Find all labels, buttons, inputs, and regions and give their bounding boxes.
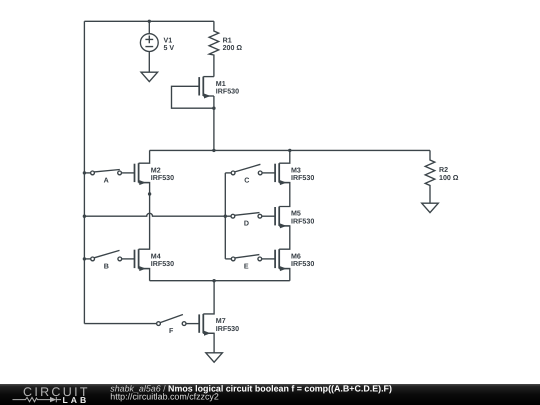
svg-text:M2: M2 xyxy=(151,166,161,174)
svg-text:R2: R2 xyxy=(439,166,448,174)
svg-text:IRF530: IRF530 xyxy=(216,325,239,333)
wire M4 source to bottom bus xyxy=(139,269,150,281)
wire M1 source to drain bus xyxy=(213,108,215,150)
svg-text:A: A xyxy=(104,176,109,184)
wire M5 source to M6 drain xyxy=(279,226,290,249)
node M2-M4 junction xyxy=(148,192,151,195)
wire switch F left xyxy=(84,323,156,325)
wire V1 bottom xyxy=(148,52,150,73)
wire M1 source stub xyxy=(213,96,215,108)
svg-text:IRF530: IRF530 xyxy=(151,260,174,268)
wire switch bus with hop xyxy=(84,213,231,216)
svg-text:M7: M7 xyxy=(216,317,226,325)
wire top rail V+ xyxy=(84,20,214,22)
wire M2 drain riser xyxy=(139,150,150,163)
wire M7 source to ground xyxy=(203,333,214,352)
wire M3 drain riser xyxy=(279,150,290,163)
switch F xyxy=(157,315,186,326)
ground under M7 xyxy=(206,353,223,362)
wire M7 drain riser xyxy=(203,281,214,314)
transistor M5 xyxy=(275,207,290,229)
svg-text:IRF530: IRF530 xyxy=(291,174,314,182)
logo LAB text xyxy=(63,395,90,405)
svg-text:C: C xyxy=(244,176,249,184)
transistor M2 xyxy=(135,163,150,185)
svg-text:M5: M5 xyxy=(291,210,301,218)
wire M1 gate loop to source node xyxy=(172,86,214,108)
wire left rail xyxy=(83,21,85,323)
wire M6 source to bottom bus xyxy=(279,269,290,281)
transistor M7 xyxy=(199,314,214,336)
wire M2 source to M4 drain xyxy=(139,183,150,250)
wire switch B to M4 gate xyxy=(122,258,135,260)
node V1 top junction xyxy=(148,20,151,23)
resistor R2 xyxy=(425,150,435,203)
node M1 source junction xyxy=(212,107,215,110)
svg-text:M6: M6 xyxy=(291,252,301,260)
ground under R2 xyxy=(422,203,439,212)
switch D xyxy=(231,213,262,219)
switch E xyxy=(231,255,261,261)
wire switch A left xyxy=(84,172,90,174)
svg-text:B: B xyxy=(104,262,109,270)
ground under V1 xyxy=(141,72,158,81)
transistor M3 xyxy=(275,163,290,185)
voltage source V1 xyxy=(140,34,158,52)
svg-text:http://circuitlab.com/cfzzcy2: http://circuitlab.com/cfzzcy2 xyxy=(110,392,219,402)
wire M3 source to M5 drain xyxy=(279,183,290,207)
node rail-B junction xyxy=(83,257,86,260)
svg-text:M3: M3 xyxy=(291,166,301,174)
node M7 drain junction xyxy=(212,279,215,282)
wire switch F to M7 gate xyxy=(186,323,199,325)
node rail-A junction xyxy=(83,171,86,174)
node M3 drain junction xyxy=(288,149,291,152)
svg-text:R1: R1 xyxy=(223,36,232,44)
wire switch B left xyxy=(84,258,90,260)
wire V1 top stub xyxy=(148,21,150,33)
resistor R1 xyxy=(209,21,219,76)
switch B xyxy=(91,250,122,260)
logo schematic glyph xyxy=(13,397,62,402)
svg-text:M4: M4 xyxy=(151,252,161,260)
wire switch D to M5 gate xyxy=(262,215,275,217)
wire switch E to M6 gate xyxy=(262,258,275,260)
wire E row stub xyxy=(225,258,231,260)
svg-text:IRF530: IRF530 xyxy=(291,218,314,226)
wire C row stub xyxy=(225,172,231,174)
footer bar xyxy=(0,384,540,405)
wire bottom bus xyxy=(150,280,290,282)
switch A xyxy=(91,170,122,175)
svg-text:D: D xyxy=(244,220,249,228)
svg-text:100 Ω: 100 Ω xyxy=(439,174,459,182)
wire switch C to M3 gate xyxy=(262,172,275,174)
wire CDE rail xyxy=(224,173,226,259)
footer url line xyxy=(110,392,219,402)
node rail-bus junction xyxy=(83,215,86,218)
svg-text:LAB: LAB xyxy=(63,395,90,405)
wire switch A to M2 gate xyxy=(122,172,135,174)
svg-text:F: F xyxy=(169,327,174,335)
transistor M6 xyxy=(275,249,290,271)
svg-text:IRF530: IRF530 xyxy=(151,174,174,182)
svg-text:5 V: 5 V xyxy=(164,44,175,52)
svg-text:IRF530: IRF530 xyxy=(291,260,314,268)
svg-text:E: E xyxy=(244,262,249,270)
svg-text:IRF530: IRF530 xyxy=(216,88,239,96)
svg-text:M1: M1 xyxy=(216,80,226,88)
wire drain bus xyxy=(150,149,430,151)
transistor M4 xyxy=(135,249,150,271)
svg-text:V1: V1 xyxy=(164,36,173,44)
transistor M1 xyxy=(199,67,214,99)
footer title line xyxy=(110,383,392,393)
logo CIRCUIT text xyxy=(23,385,90,399)
node M1 to bus junction xyxy=(212,149,215,152)
switch C xyxy=(231,164,262,175)
node CDE rail junction xyxy=(224,215,227,218)
svg-text:200 Ω: 200 Ω xyxy=(223,44,243,52)
